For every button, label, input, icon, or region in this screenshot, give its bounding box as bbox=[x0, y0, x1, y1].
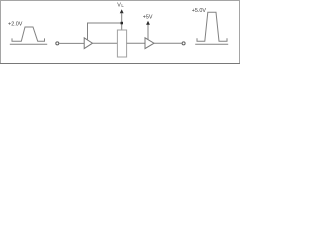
svg-text:+5V: +5V bbox=[143, 14, 153, 20]
svg-text:+2.0V: +2.0V bbox=[8, 22, 23, 28]
svg-text:+5.0V: +5.0V bbox=[192, 8, 207, 14]
